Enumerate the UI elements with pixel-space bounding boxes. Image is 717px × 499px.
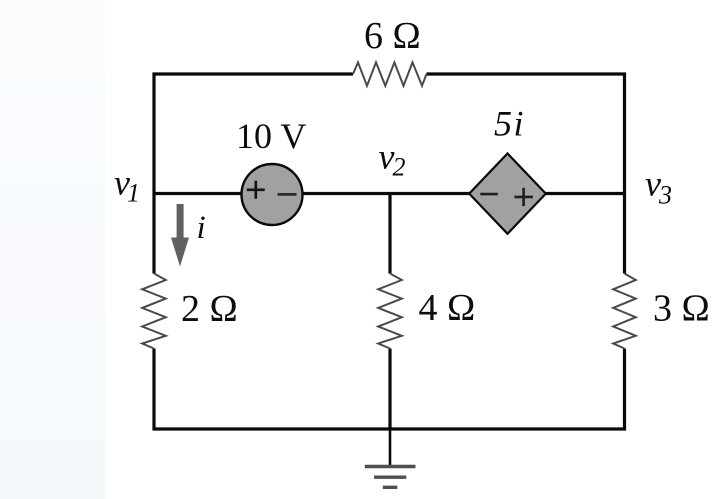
resistor 4ohm zigzag (middle)	[378, 274, 402, 349]
resistor 2ohm zigzag (left)	[142, 274, 166, 349]
wire bottom to ground	[389, 429, 392, 466]
voltage source V1 10V circle	[242, 164, 303, 225]
svg-text:6 Ω: 6 Ω	[364, 15, 421, 57]
dependent source 5i diamond	[469, 154, 546, 234]
wire bottom-right segment	[390, 349, 625, 430]
minus sign inside voltage source	[278, 193, 297, 196]
plus sign inside diamond	[514, 188, 533, 206]
svg-text:i: i	[197, 210, 206, 246]
wire resistor to bottom	[388, 349, 391, 430]
svg-text:10 V: 10 V	[236, 116, 306, 156]
plus sign inside voltage source	[247, 181, 265, 199]
svg-text:v2: v2	[379, 137, 406, 182]
svg-text:5i: 5i	[494, 104, 524, 144]
wire node v1 to voltage source	[154, 192, 243, 195]
minus sign inside diamond	[480, 193, 498, 196]
wire diamond to node v3	[545, 192, 625, 195]
svg-text:v3: v3	[645, 164, 672, 210]
ground	[365, 467, 416, 488]
current arrow i	[171, 204, 189, 267]
resistor 3ohm zigzag (right)	[613, 274, 636, 349]
wire voltage source to diamond	[301, 192, 470, 195]
wire node v2 down to resistor	[388, 194, 391, 274]
svg-text:2 Ω: 2 Ω	[181, 288, 238, 330]
resistor 6ohm zigzag (top)	[353, 62, 427, 85]
svg-text:3 Ω: 3 Ω	[653, 288, 710, 330]
svg-text:4 Ω: 4 Ω	[419, 287, 476, 329]
wire top-left segment	[154, 74, 353, 274]
svg-text:v1: v1	[114, 163, 140, 208]
wire top-right segment	[427, 74, 625, 274]
wire bottom-left segment	[154, 349, 390, 430]
